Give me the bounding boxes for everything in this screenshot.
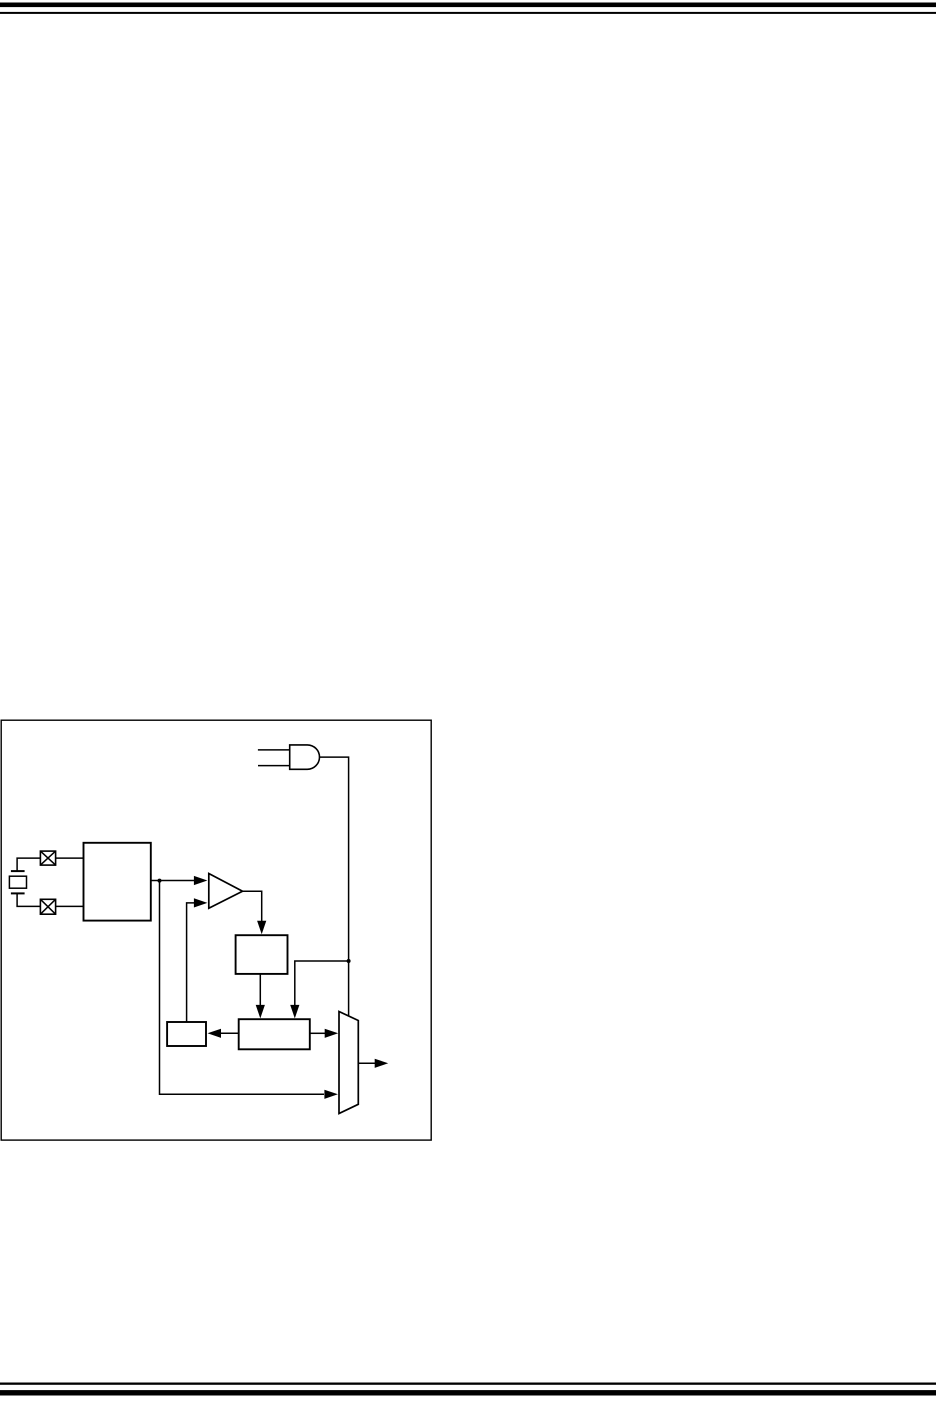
- header rule thin: [0, 12, 936, 14]
- wire AND gate input A: [258, 749, 290, 751]
- arrowhead into multiplexer lower input: [324, 1090, 338, 1099]
- arrowhead into counter (from prescaler): [256, 1005, 265, 1019]
- arrowhead into counter (from select tap): [290, 1005, 299, 1019]
- wire select tap to counter: [295, 961, 349, 1007]
- wire AND gate input B: [258, 765, 290, 767]
- wire prescaler output to counter: [259, 974, 261, 1007]
- wire oscillator output down to multiplexer lower input: [160, 881, 325, 1095]
- multiplexer: [339, 1012, 358, 1114]
- footer rule thick: [0, 1390, 936, 1395]
- wire AND gate output to multiplexer select: [320, 757, 349, 1016]
- wire feedback to buffer input B: [187, 903, 194, 1022]
- junction on select line: [347, 959, 351, 963]
- crystal bottom electrode plate: [11, 892, 25, 894]
- AND gate: [290, 745, 320, 769]
- crystal Y1 body: [9, 876, 26, 888]
- pad OSC1 (crossed box): [40, 851, 55, 865]
- buffer amplifier: [209, 874, 243, 909]
- junction on oscillator output: [158, 879, 162, 883]
- wire oscillator output to buffer input: [151, 880, 196, 882]
- wire buffer output to prescaler: [243, 891, 262, 921]
- pad OSC2 (crossed box): [40, 899, 55, 914]
- wire OSC2 pad to oscillator block: [56, 905, 84, 907]
- arrowhead into register block: [208, 1029, 222, 1038]
- arrowhead into multiplexer upper input: [325, 1029, 339, 1038]
- arrowhead into buffer input B: [194, 898, 208, 907]
- register block: [167, 1022, 206, 1046]
- footer rule thin: [0, 1383, 936, 1385]
- wire crystal bottom to OSC2 pad: [17, 893, 40, 906]
- oscillator block: [84, 843, 151, 921]
- wire multiplexer output: [358, 1062, 375, 1064]
- prescaler block: [236, 935, 288, 974]
- figure frame: [1, 720, 431, 1140]
- wire crystal top to OSC1 pad: [17, 858, 40, 871]
- wire counter to register block: [221, 1032, 239, 1034]
- arrowhead multiplexer output: [375, 1059, 389, 1068]
- wire OSC1 pad to oscillator block: [56, 857, 84, 859]
- arrowhead into buffer input A: [194, 876, 208, 885]
- counter block: [239, 1019, 310, 1049]
- arrowhead into prescaler: [257, 921, 266, 935]
- wire counter to multiplexer upper input: [310, 1032, 325, 1034]
- header rule thick: [0, 3, 936, 8]
- crystal top electrode plate: [11, 870, 25, 872]
